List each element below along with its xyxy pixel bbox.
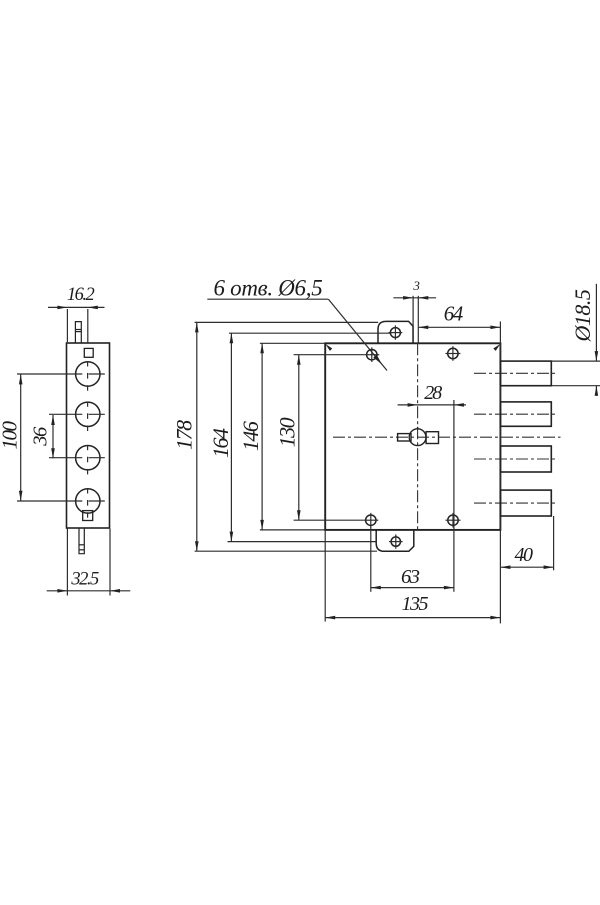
svg-text:146: 146 — [238, 421, 263, 451]
svg-text:3: 3 — [412, 278, 420, 293]
svg-text:64: 64 — [444, 302, 464, 326]
svg-text:Ø18.5: Ø18.5 — [570, 289, 595, 342]
svg-text:63: 63 — [401, 566, 420, 588]
svg-text:32.5: 32.5 — [70, 570, 99, 590]
svg-text:178: 178 — [172, 420, 197, 450]
svg-text:6 отв. Ø6,5: 6 отв. Ø6,5 — [214, 276, 323, 301]
svg-text:36: 36 — [30, 426, 52, 447]
svg-text:164: 164 — [208, 428, 233, 458]
svg-text:28: 28 — [424, 382, 442, 404]
svg-text:100: 100 — [0, 421, 22, 450]
svg-text:16.2: 16.2 — [67, 285, 95, 305]
svg-text:40: 40 — [515, 544, 534, 566]
svg-text:135: 135 — [401, 593, 428, 615]
svg-text:130: 130 — [275, 417, 300, 447]
